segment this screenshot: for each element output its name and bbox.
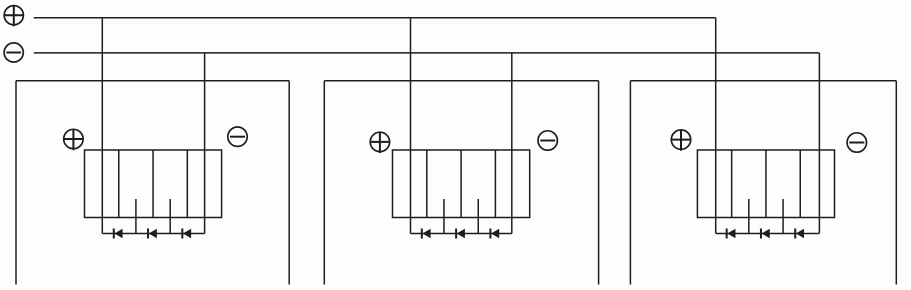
bypass diode D3	[182, 229, 191, 239]
module 2 negative terminal symbol	[538, 131, 557, 150]
module 2 enclosure (open-bottom box)	[324, 81, 598, 285]
module 1 cell string PV1 (4-cell rectangle)	[85, 150, 222, 218]
bypass diode D9	[795, 229, 804, 239]
module 2 positive terminal symbol	[370, 132, 389, 153]
module 1 positive terminal symbol	[64, 129, 83, 150]
wire: module 2 positive drop from top rail	[410, 18, 412, 234]
bypass diode D5	[456, 229, 465, 239]
module 1 negative terminal symbol	[228, 127, 247, 146]
wire: negative bus (second rail)	[34, 52, 820, 54]
negative supply terminal symbol	[4, 43, 23, 62]
bypass diode D7	[727, 229, 736, 239]
bypass diode D6	[490, 229, 499, 239]
bypass diode D1	[114, 229, 123, 239]
wire: module 1 cell tap stub B	[169, 199, 171, 234]
module 3 enclosure (open-bottom box)	[630, 81, 896, 285]
module 2 cell string PV2 (4-cell rectangle)	[393, 150, 530, 218]
module 3 positive terminal symbol	[671, 130, 690, 151]
wire: module 3 bypass-diode bus	[716, 233, 820, 235]
wire: positive bus (top rail)	[34, 17, 716, 19]
wire: module 2 cell tap stub A	[443, 199, 445, 234]
wire: module 1 negative drop from second rail	[204, 53, 206, 234]
wire: module 3 cell tap stub A	[748, 199, 750, 234]
positive supply terminal symbol	[4, 6, 23, 27]
module 3 cell string PV3 (4-cell rectangle)	[697, 150, 834, 218]
wire: module 3 cell tap stub B	[782, 199, 784, 234]
wire: module 2 cell tap stub B	[477, 199, 479, 234]
wire: module 2 bypass-diode bus	[411, 233, 512, 235]
wire: module 1 cell tap stub A	[135, 199, 137, 234]
wire: module 2 negative drop from second rail	[511, 53, 513, 234]
wire: module 1 bypass-diode bus	[102, 233, 204, 235]
wire: module 3 positive drop from top rail	[715, 18, 717, 234]
module 3 negative terminal symbol	[847, 133, 866, 152]
module 1 enclosure (open-bottom box)	[16, 81, 289, 285]
bypass diode D8	[761, 229, 770, 239]
wire: module 3 negative drop from second rail	[818, 53, 820, 234]
bypass diode D4	[422, 229, 431, 239]
wire: module 1 positive drop from top rail	[101, 18, 103, 234]
bypass diode D2	[148, 229, 157, 239]
